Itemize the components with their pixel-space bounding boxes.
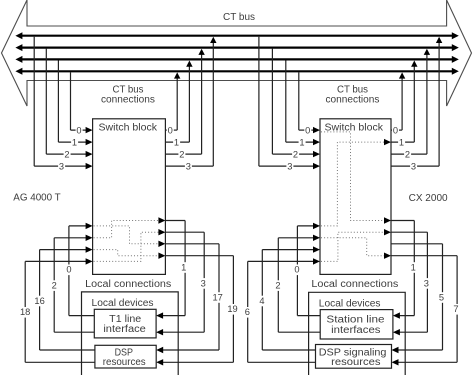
CT bus line 4 <box>21 70 454 72</box>
wire bus line 3 to left switch input 1 <box>57 60 59 142</box>
svg-text:1: 1 <box>72 137 77 147</box>
svg-text:0: 0 <box>76 125 81 135</box>
wire bus line 3 to right switch input 1 <box>285 60 287 142</box>
svg-text:3: 3 <box>424 278 429 288</box>
label left input 2 <box>64 149 71 159</box>
label 5 (right loop) <box>438 292 445 303</box>
svg-text:Station line: Station line <box>326 314 385 325</box>
CT bus line 3 <box>21 58 454 60</box>
label 1 (left loop) <box>180 262 187 273</box>
svg-text:17: 17 <box>213 292 223 302</box>
wire T1/DSP output 18 to left switch local input 3 <box>25 260 87 262</box>
svg-text:19: 19 <box>227 304 237 314</box>
wire Station/DSP output 2 to right switch local input 1 <box>278 237 314 239</box>
wire left switch output 0 to bus line 4 <box>165 129 177 131</box>
wire right switch output 0 to bus line 4 <box>391 129 402 131</box>
label right switch input 1 <box>299 137 306 147</box>
Local devices container box (left) <box>82 292 179 375</box>
wire T1/DSP output 0 to left switch local input 0 <box>69 225 87 227</box>
wire T1/DSP output 2 to left switch local input 1 <box>54 237 87 239</box>
svg-text:3: 3 <box>411 161 416 171</box>
label left output 1 <box>173 137 180 147</box>
svg-text:AG 4000 T: AG 4000 T <box>13 193 60 204</box>
wire Station/DSP output 0 to right switch local input 0 <box>297 225 314 227</box>
wire bus line 1 to right switch input 3 <box>258 37 260 166</box>
label 17 (left loop) <box>211 292 224 303</box>
svg-text:3: 3 <box>59 161 64 171</box>
wire bus line 2 to right switch input 2 <box>271 49 273 155</box>
wire bus line 4 to right switch input 0 <box>298 72 300 130</box>
svg-text:6: 6 <box>245 307 250 317</box>
CT bus line 2 <box>21 46 454 48</box>
svg-text:0: 0 <box>393 125 398 135</box>
svg-text:connections: connections <box>101 94 155 105</box>
svg-text:2: 2 <box>64 149 69 159</box>
CT bus line 1 <box>21 35 454 37</box>
label right switch input 2 <box>292 149 299 159</box>
wire Station/DSP output 4 to right switch local input 2 <box>262 249 314 251</box>
svg-text:Switch block: Switch block <box>99 122 159 133</box>
svg-text:Local devices: Local devices <box>92 298 154 309</box>
dotted route left in2 to out1 <box>94 221 165 238</box>
label 0 (left loop) <box>65 265 72 276</box>
left switch block box U1 <box>93 119 166 275</box>
svg-text:1: 1 <box>174 137 179 147</box>
label left output 3 <box>185 161 192 171</box>
svg-text:0: 0 <box>294 265 299 275</box>
wire right switch local output 2 to Station/DSP input 5 <box>391 243 443 245</box>
wire bus line 4 to left switch input 0 <box>70 72 72 130</box>
dotted route left in3 to out4 <box>94 250 165 256</box>
svg-text:resources: resources <box>331 357 380 368</box>
Local devices container box (right) <box>309 292 406 375</box>
wire left switch local output 1 to T1/DSP input 3 <box>165 231 204 233</box>
wire right switch local output 0 to Station/DSP input 1 <box>391 220 414 222</box>
svg-text:0: 0 <box>305 125 310 135</box>
wire right switch local output 1 to Station/DSP input 3 <box>391 231 427 233</box>
label 3 (left loop) <box>200 278 207 289</box>
svg-text:5: 5 <box>439 292 444 302</box>
label Local connections (left) <box>84 279 173 290</box>
label 6 (right loop) <box>244 307 251 318</box>
svg-text:interfaces: interfaces <box>331 325 380 336</box>
wire right switch output 3 to bus line 1 <box>391 165 439 167</box>
wire left switch local output 0 to T1/DSP input 1 <box>165 220 185 222</box>
dotted route right in1 to top-out1 <box>321 142 390 226</box>
svg-text:Local connections: Local connections <box>85 279 171 290</box>
label right switch input 0 <box>304 125 311 135</box>
dotted route left in1 to out3 <box>94 226 165 244</box>
dotted route left in4 to out2 <box>94 232 165 261</box>
dotted route right in2 to out4 <box>321 238 390 256</box>
label left output 0 <box>167 125 174 135</box>
label 3 (right loop) <box>423 278 430 289</box>
label right switch input 3 <box>286 161 293 171</box>
svg-text:resources: resources <box>103 357 146 368</box>
svg-text:1: 1 <box>411 262 416 272</box>
svg-text:4: 4 <box>259 296 264 306</box>
label 2 (right loop) <box>274 280 281 291</box>
label left output 2 <box>178 149 185 159</box>
label right switch output 2 <box>404 149 411 159</box>
label Local connections (right) <box>310 279 400 290</box>
svg-text:Local connections: Local connections <box>311 279 398 290</box>
wire bus line 1 to left switch input 3 <box>33 37 35 166</box>
wire right switch output 2 to bus line 2 <box>391 153 427 155</box>
T1 line interface box <box>94 309 156 338</box>
svg-text:2: 2 <box>293 149 298 159</box>
svg-text:1: 1 <box>299 137 304 147</box>
svg-text:18: 18 <box>20 307 30 317</box>
svg-text:3: 3 <box>201 278 206 288</box>
dotted route right in4 to out2 <box>321 232 390 261</box>
wire right switch local output 3 to Station/DSP input 7 <box>391 255 457 257</box>
label 19 (left loop) <box>226 304 239 315</box>
label 7 (right loop) <box>453 304 460 315</box>
label 4 (right loop) <box>258 296 265 307</box>
svg-text:7: 7 <box>453 304 458 314</box>
svg-text:3: 3 <box>186 161 191 171</box>
wire left switch local output 3 to T1/DSP input 19 <box>165 255 233 257</box>
DSP signaling resources box <box>316 345 392 369</box>
label left input 0 <box>76 125 83 135</box>
label right switch output 0 <box>392 125 399 135</box>
svg-text:2: 2 <box>275 281 280 291</box>
dotted route right top-in0 to out1 <box>321 132 390 221</box>
DSP resources box <box>95 345 156 368</box>
label right switch output 3 <box>410 161 417 171</box>
label right switch output 1 <box>398 137 405 147</box>
svg-text:Local devices: Local devices <box>319 298 381 309</box>
Station line interfaces box <box>320 310 393 339</box>
svg-text:1: 1 <box>181 262 186 272</box>
CT bus block arrow outline <box>2 0 472 106</box>
svg-text:interface: interface <box>103 324 146 335</box>
svg-text:connections: connections <box>326 94 380 105</box>
wire Station/DSP output 6 to right switch local input 3 <box>248 260 315 262</box>
svg-text:CX 2000: CX 2000 <box>409 193 448 204</box>
label 16 (left loop) <box>33 296 46 307</box>
wire bus line 2 to left switch input 2 <box>45 49 47 155</box>
wire left switch local output 2 to T1/DSP input 17 <box>165 243 219 245</box>
label 0 (right loop) <box>294 265 301 276</box>
wire right switch output 1 to bus line 3 <box>391 141 414 143</box>
svg-text:0: 0 <box>66 265 71 275</box>
svg-text:0: 0 <box>168 125 173 135</box>
svg-text:2: 2 <box>52 281 57 291</box>
svg-text:1: 1 <box>399 137 404 147</box>
label 2 (left loop) <box>51 280 58 291</box>
svg-text:3: 3 <box>287 161 292 171</box>
label 1 (right loop) <box>410 262 417 273</box>
label 18 (left loop) <box>19 307 32 318</box>
svg-text:16: 16 <box>34 296 44 306</box>
label left input 3 <box>58 161 65 171</box>
wire left switch output 3 to bus line 1 <box>165 165 213 167</box>
wire left switch output 1 to bus line 3 <box>165 141 189 143</box>
svg-text:2: 2 <box>179 149 184 159</box>
right switch block box U2 <box>320 119 391 275</box>
wire T1/DSP output 16 to left switch local input 2 <box>40 249 88 251</box>
wire left switch output 2 to bus line 2 <box>165 153 201 155</box>
svg-text:CT bus: CT bus <box>223 12 255 23</box>
svg-text:2: 2 <box>405 149 410 159</box>
label left input 1 <box>71 137 78 147</box>
